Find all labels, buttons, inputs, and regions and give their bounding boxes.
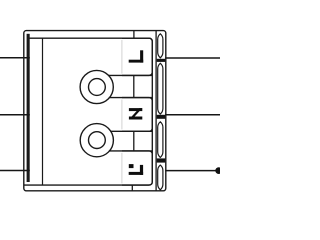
terminal window E: right rounded corners	[122, 151, 152, 185]
wire 2 left	[0, 114, 30, 116]
strip separator bar 1	[157, 59, 166, 62]
top parting divider	[133, 31, 135, 39]
bottom parting divider	[131, 185, 133, 191]
clamp spring slot 1	[158, 34, 163, 58]
wire 3 end dot	[215, 167, 222, 174]
label L (rotated): stem	[140, 50, 143, 62]
wire 1 left	[0, 57, 30, 59]
label earth (rotated): foot bar	[129, 172, 143, 175]
front face inset outline	[24, 38, 152, 185]
terminal window N: right rounded corners	[122, 98, 152, 132]
screw hole 2 outer	[80, 124, 113, 157]
wire 1 right	[165, 57, 220, 59]
strip separator bar 2	[157, 115, 166, 119]
left inner wall	[42, 38, 44, 185]
terminal block body outline	[24, 31, 166, 191]
screw slot 2 top edge	[110, 130, 152, 132]
window L faint left edge	[121, 40, 123, 74]
window N faint left edge	[121, 100, 123, 130]
label earth (rotated): dot	[129, 164, 134, 168]
body right face edge	[155, 31, 157, 191]
clamp spring slot 3	[158, 122, 163, 158]
screw slot 1 end divider	[133, 75, 135, 97]
wire 3 right	[165, 170, 216, 172]
strip separator bar 3	[157, 158, 166, 162]
screw slot 2 bottom edge	[109, 150, 152, 152]
screw slot 1 bottom edge	[109, 97, 153, 99]
label N (rotated): diagonal	[129, 108, 142, 119]
window E faint left edge	[121, 153, 123, 184]
label L (rotated): foot bar	[129, 60, 144, 63]
screw slot 2 end divider	[133, 131, 135, 151]
label earth (rotated): stem	[140, 165, 143, 175]
screw hole 1 outer	[80, 70, 113, 103]
wire 2 right	[165, 114, 220, 116]
screw hole 2 inner	[89, 132, 106, 149]
label N (rotated): bottom bar	[129, 117, 142, 120]
terminal window L: right rounded corners	[122, 38, 152, 75]
clamp spring slot 2	[158, 63, 163, 114]
left clamp slot (dark)	[27, 34, 30, 182]
clamp spring slot 4	[158, 165, 163, 190]
screw slot 1 top edge	[108, 74, 152, 76]
screw hole 1 inner	[89, 79, 106, 96]
label N (rotated): top bar	[129, 108, 142, 111]
wire 3 left	[0, 170, 30, 172]
